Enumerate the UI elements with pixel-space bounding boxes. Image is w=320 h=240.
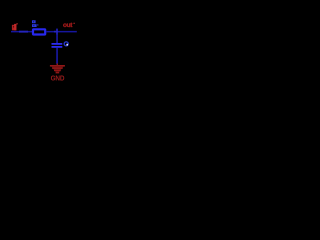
resistor R1 (box symbol)	[33, 29, 45, 34]
svg-text:out: out	[63, 22, 73, 29]
ground (bar 4)	[56, 72, 60, 74]
node OUT label (red text)	[63, 22, 75, 29]
ground (stem)	[57, 63, 58, 65]
ground (bar 2)	[52, 67, 63, 69]
capacitor C1 (top plate)	[52, 43, 63, 45]
node IN label (red input marker)	[12, 23, 18, 30]
wire: capacitor C1 to ground	[56, 48, 58, 64]
wire: input to resistor R1	[11, 31, 32, 33]
wire: node OUT down to capacitor C1	[56, 34, 58, 43]
capacitor C1 (bottom plate)	[52, 46, 63, 48]
background	[0, 0, 100, 100]
wire: resistor R1 to node OUT	[46, 31, 76, 33]
svg-text:GND: GND	[51, 75, 65, 82]
label C1 (blue glyph right of capacitor)	[64, 42, 68, 46]
ground (bar 1)	[50, 65, 65, 67]
ground (bar 3)	[54, 70, 61, 72]
ground (fill between bars)	[51, 65, 65, 73]
junction (node OUT dot/cross)	[56, 29, 58, 35]
label R1 (two blue text lines above resistor)	[32, 20, 38, 27]
